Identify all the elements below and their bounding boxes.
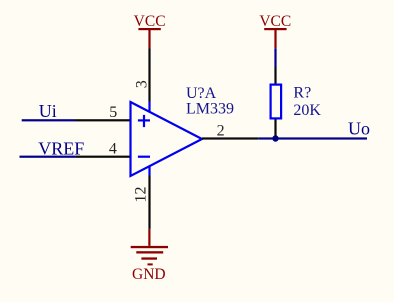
op-amp U?A pin 3 connector stub [148,101,150,111]
op-amp U?A pin 2 (output) [202,137,259,139]
resistor R? body [271,85,282,119]
power port VCC (right, for resistor) [259,13,291,48]
wire output net to Uo [259,137,367,139]
svg-text:GND: GND [132,266,166,283]
op-amp U?A pin 12 [148,176,150,229]
svg-text:Uo: Uo [348,119,370,139]
svg-text:4: 4 [109,141,117,158]
svg-text:LM339: LM339 [186,101,234,118]
svg-text:VCC: VCC [259,13,291,30]
wire Ui net [22,119,75,121]
svg-text:VCC: VCC [134,13,166,30]
wire VCC to resistor R? [274,48,276,67]
svg-text:12: 12 [132,187,149,203]
svg-text:3: 3 [133,80,150,88]
svg-text:5: 5 [109,104,117,121]
svg-text:VREF: VREF [38,138,84,158]
ground symbol GND [131,229,168,266]
svg-text:Ui: Ui [39,101,57,121]
op-amp U?A pin 12 connector stub [148,167,150,176]
op-amp minus input symbol [138,156,150,158]
wire VCC to op-amp pin 3 [148,49,150,102]
resistor R? pin 2 (bottom) [274,120,276,137]
power port VCC (left, for op-amp pin 3) [134,13,166,49]
junction node at resistor/output [272,135,278,141]
op-amp plus input symbol [138,115,150,127]
svg-text:20K: 20K [293,102,321,119]
svg-text:2: 2 [217,123,225,140]
op-amp U?A pin 5 [75,119,131,121]
resistor R? pin 1 (top) [274,67,276,84]
svg-text:R?: R? [293,85,311,102]
wire VREF net [20,156,76,158]
op-amp U?A triangle body [131,102,203,176]
op-amp U?A pin 4 [76,156,131,158]
